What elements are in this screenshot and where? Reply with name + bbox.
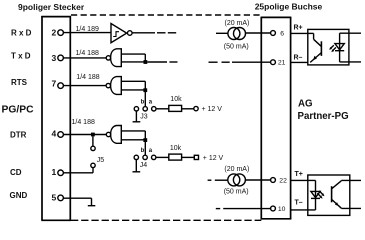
wire TxD pin3 to gate bbox=[63, 57, 106, 59]
LED D1 in U5 bbox=[335, 33, 344, 62]
current source B1 (20 mA / 50 mA) bbox=[228, 28, 246, 40]
svg-text:b: b bbox=[141, 99, 145, 105]
svg-text:T x D: T x D bbox=[11, 52, 31, 61]
optocoupler U6 box (transmit) bbox=[308, 175, 350, 215]
wire RTS pin7 to gate bbox=[63, 85, 106, 87]
wire TxD line to pin 21 bbox=[147, 61, 270, 63]
wire U5 LED bottom exit bbox=[340, 61, 361, 63]
svg-text:1/4 188: 1/4 188 bbox=[72, 119, 95, 126]
pin 4 bbox=[51, 129, 63, 139]
svg-text:T+: T+ bbox=[295, 171, 303, 178]
light arrows U5 bbox=[329, 45, 336, 52]
emitter arrow Q2 bbox=[335, 202, 339, 206]
wire U6 emitter exit bbox=[341, 207, 361, 209]
connector X1 9-pin body bbox=[41, 16, 71, 220]
wire T- to pin 10 bbox=[223, 208, 270, 210]
svg-text:J3: J3 bbox=[140, 114, 148, 121]
wire R- bbox=[291, 61, 308, 63]
gate U2 1/4 1488 TxD bbox=[106, 49, 121, 67]
svg-text:(20 mA): (20 mA) bbox=[224, 166, 249, 173]
wire RxD to current source bbox=[216, 32, 228, 34]
wire R+ bbox=[291, 32, 308, 34]
ground at GND pin bbox=[88, 205, 96, 207]
wire T+ right bbox=[291, 179, 316, 181]
pin 2 bbox=[51, 28, 63, 38]
terminal +12V (J3 row) bbox=[194, 106, 198, 110]
svg-text:AG: AG bbox=[298, 99, 313, 110]
svg-text:1/4 189: 1/4 189 bbox=[76, 26, 99, 33]
svg-text:J5: J5 bbox=[97, 157, 105, 164]
pin 3 bbox=[51, 53, 63, 63]
svg-text:Partner-PG: Partner-PG bbox=[298, 111, 349, 122]
wire DTR pin4 to gate bbox=[63, 134, 106, 136]
connector X2 25-pin body bbox=[261, 17, 292, 219]
svg-text:1/4 188: 1/4 188 bbox=[76, 50, 99, 57]
svg-text:(50 mA): (50 mA) bbox=[224, 189, 249, 196]
svg-text:6: 6 bbox=[280, 30, 284, 37]
svg-text:4: 4 bbox=[51, 129, 56, 139]
svg-text:+ 12 V: + 12 V bbox=[203, 155, 224, 162]
svg-text:(50 mA): (50 mA) bbox=[224, 44, 249, 51]
svg-text:b: b bbox=[141, 148, 145, 154]
transistor Q1 in U5 bbox=[308, 33, 322, 62]
wire RTS gate input ties bbox=[121, 81, 145, 90]
svg-text:25polige Buchse: 25polige Buchse bbox=[255, 2, 323, 12]
junction DTR tie bbox=[143, 138, 147, 142]
svg-text:R+: R+ bbox=[294, 25, 303, 32]
svg-text:21: 21 bbox=[278, 60, 286, 67]
wire current source to pin 6 bbox=[246, 32, 271, 34]
wire GND pin5 bbox=[63, 198, 91, 205]
svg-text:1/4 188: 1/4 188 bbox=[76, 74, 99, 81]
wire TxD gate input ties bbox=[121, 54, 145, 62]
wire CD pin1 to J5 bbox=[63, 168, 93, 173]
svg-text:+ 12 V: + 12 V bbox=[202, 106, 223, 113]
jumper J5 upper contact with stem bbox=[91, 136, 95, 150]
wire resistor to +12V square bbox=[182, 156, 195, 158]
emitter arrow Q1 bbox=[313, 56, 317, 61]
jumper J4 contacts bbox=[134, 155, 156, 159]
svg-text:3: 3 bbox=[51, 53, 56, 63]
wire U6 collector exit bbox=[341, 179, 361, 181]
svg-text:PG/PC: PG/PC bbox=[2, 104, 35, 115]
svg-text:R–: R– bbox=[294, 55, 303, 62]
resistor R1 10k bbox=[169, 105, 182, 111]
svg-text:RTS: RTS bbox=[11, 78, 28, 87]
optocoupler U5 box (receive) bbox=[308, 29, 349, 65]
gate U3 1/4 1488 RTS bbox=[106, 77, 121, 95]
svg-text:10: 10 bbox=[278, 206, 286, 213]
wire RTS junction down to J3 bbox=[144, 92, 146, 107]
LED D2 in U6 bbox=[311, 180, 320, 210]
resistor R2 10k bbox=[169, 154, 182, 160]
pin 1 bbox=[51, 167, 63, 177]
wire T- right bbox=[291, 209, 316, 211]
svg-text:(20 mA): (20 mA) bbox=[225, 20, 250, 27]
terminal +12V square (J4 row) bbox=[194, 155, 198, 159]
wire DTR gate input ties bbox=[121, 131, 145, 140]
wire U5 LED top exit bbox=[340, 32, 361, 34]
svg-text:5: 5 bbox=[51, 192, 56, 202]
svg-text:10k: 10k bbox=[170, 96, 182, 103]
op-amp U1 inverter 1/4 1489 bbox=[111, 24, 132, 43]
wire RxD cable dashes bbox=[157, 32, 166, 34]
ground at J4 bbox=[133, 160, 141, 172]
svg-text:9poliger Stecker: 9poliger Stecker bbox=[18, 2, 85, 12]
transistor Q2 in U6 bbox=[332, 180, 342, 208]
pin 21 bbox=[271, 60, 286, 67]
ground at J3 bbox=[133, 111, 141, 122]
svg-text:22: 22 bbox=[279, 178, 287, 185]
svg-text:DTR: DTR bbox=[10, 130, 27, 139]
wire resistor to +12V bbox=[182, 108, 194, 110]
pin 22 bbox=[271, 178, 287, 185]
svg-text:T–: T– bbox=[295, 200, 303, 207]
svg-text:7: 7 bbox=[51, 79, 56, 89]
wire T- cable dash bbox=[216, 208, 220, 210]
wire DTR junction down to J4 bbox=[144, 142, 146, 155]
junction TxD bbox=[144, 60, 148, 64]
jumper J5 lower contact bbox=[91, 163, 95, 167]
gate U4 1/4 1488 DTR bbox=[106, 126, 121, 144]
svg-text:J4: J4 bbox=[140, 162, 148, 169]
svg-text:10k: 10k bbox=[170, 145, 182, 152]
wire J3 to resistor bbox=[156, 108, 169, 110]
svg-text:CD: CD bbox=[10, 168, 22, 177]
wire J4 to resistor bbox=[156, 156, 169, 158]
svg-text:R x D: R x D bbox=[11, 28, 32, 37]
jumper J3 contacts bbox=[134, 107, 156, 111]
pin 6 bbox=[271, 30, 285, 37]
wire current source to pin 22 bbox=[246, 179, 271, 181]
dashed device boundary top bbox=[71, 14, 261, 16]
light arrows U6 bbox=[317, 191, 324, 199]
pin 5 bbox=[51, 192, 63, 202]
pin 7 bbox=[51, 79, 63, 89]
wire RxD pin2 to inverter bbox=[63, 32, 111, 34]
wire T+ cable dash bbox=[208, 179, 212, 181]
dashed device boundary bottom bbox=[71, 219, 261, 221]
svg-text:GND: GND bbox=[10, 191, 28, 200]
svg-text:1: 1 bbox=[51, 167, 56, 177]
wire T+ to current source bbox=[215, 179, 228, 181]
pin 10 bbox=[271, 206, 286, 213]
svg-text:2: 2 bbox=[51, 28, 56, 38]
current source B2 (20 mA / 50 mA) bbox=[228, 174, 246, 186]
junction DTR / J5 bbox=[91, 133, 95, 137]
wire RxD inverter output bbox=[132, 32, 155, 34]
junction RTS bbox=[143, 88, 147, 92]
